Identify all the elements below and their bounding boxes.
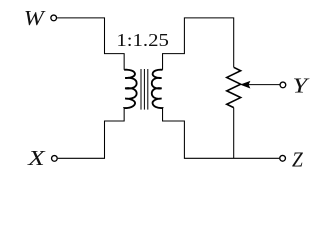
potentiometer R1 zigzag bbox=[227, 67, 241, 107]
transformer T1 primary coil bbox=[124, 70, 136, 108]
svg-text:X: X bbox=[27, 146, 46, 170]
svg-text:W: W bbox=[24, 6, 47, 30]
svg-text:1:1.25: 1:1.25 bbox=[116, 30, 168, 50]
wire secondary top to right rail bbox=[163, 18, 234, 70]
wire pot bottom to bottom rail bbox=[233, 108, 235, 159]
wire primary bottom to X bbox=[58, 108, 124, 158]
wire W to transformer primary top bbox=[57, 18, 124, 70]
terminal X bbox=[52, 156, 58, 162]
terminal Z bbox=[280, 155, 286, 161]
svg-text:Y: Y bbox=[293, 73, 311, 97]
potentiometer wiper arrowhead bbox=[241, 82, 250, 88]
terminal Y bbox=[280, 82, 286, 88]
transformer T1 secondary coil bbox=[152, 70, 163, 108]
terminal W bbox=[51, 15, 57, 21]
potentiometer wiper arrow shaft bbox=[246, 84, 280, 86]
wire secondary bottom to Z bbox=[163, 108, 280, 158]
svg-text:Z: Z bbox=[292, 147, 303, 171]
transformer core bbox=[141, 69, 148, 110]
